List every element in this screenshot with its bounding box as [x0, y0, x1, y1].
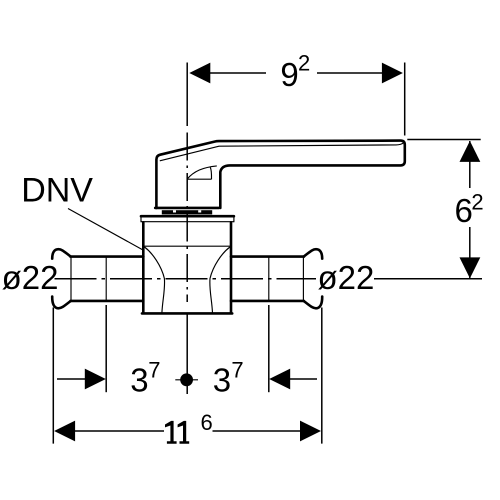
svg-text:2: 2 [471, 189, 483, 214]
dim 9.2 left arrow [189, 63, 210, 84]
DNV leader line [68, 209, 143, 251]
center dot [180, 373, 193, 386]
dim 6.2 up arrow [460, 141, 481, 162]
svg-text:ø22: ø22 [318, 259, 375, 296]
thumb fold hook [210, 167, 211, 179]
dim 6.2 down arrow [460, 257, 481, 278]
svg-text:6: 6 [455, 192, 473, 229]
svg-text:DNV: DNV [21, 171, 93, 209]
left pipe top line [71, 255, 144, 258]
dim 9.2 right arrow [382, 63, 403, 84]
dim 3.7 left arrow [85, 369, 106, 390]
svg-text:9: 9 [280, 56, 298, 93]
thumb rest arc [187, 166, 217, 179]
bonnet flange lower line [141, 221, 233, 223]
right bell top [304, 249, 322, 258]
left insert depth mark [105, 257, 107, 301]
dim 6.2 top extension line [407, 139, 480, 141]
dim 11.6 text [165, 421, 177, 444]
handle grip bottom edge [155, 207, 219, 210]
left pipe bottom line [71, 300, 144, 303]
dim 3.7 right extension line [268, 305, 270, 392]
vertical centerline solid top (9.2 left extension) [186, 63, 188, 127]
vertical centerline solid through dot [186, 313, 188, 394]
svg-text:7: 7 [231, 357, 243, 382]
right pipe end line [302, 257, 304, 301]
dim 9.2 right extension line [404, 63, 406, 136]
body shoulder line [143, 245, 231, 247]
valve body outline [142, 222, 232, 313]
dim 11.6 left extension line [52, 308, 54, 444]
body funnel curve left [145, 247, 165, 313]
right pipe bottom line [231, 300, 304, 303]
dim 11.6 left arrow [54, 421, 75, 442]
dim 11.6 right extension line [321, 308, 323, 444]
body funnel curve right [210, 247, 230, 313]
horizontal centerline right segment [374, 278, 482, 280]
svg-text:7: 7 [148, 357, 160, 382]
right pipe top line [231, 255, 304, 258]
dim 6.2 line lower [469, 227, 471, 278]
left bell top [52, 249, 70, 258]
vertical centerline dash-dot [186, 133, 188, 303]
handle grip and arm outline [156, 141, 404, 208]
dim 11.6 right arrow [300, 421, 321, 442]
right bell bottom [304, 297, 322, 309]
horizontal centerline left segment [55, 278, 317, 280]
dim 3.7 right arrow [269, 369, 290, 390]
right insert depth mark [268, 257, 270, 301]
dim 3.7 left extension line [105, 305, 107, 392]
svg-text:3: 3 [213, 362, 231, 399]
svg-text:ø22: ø22 [2, 259, 59, 296]
dim 3.7 right line [288, 378, 317, 380]
center dot horizontal tick [175, 379, 198, 381]
dim 9.2 line right part [317, 72, 384, 74]
bonnet flange sides [141, 215, 234, 222]
dim 6.2 line upper [469, 141, 471, 188]
stem notch right [198, 210, 201, 212]
dim 11.6 line right part [213, 430, 301, 432]
svg-text:6: 6 [201, 410, 213, 435]
bonnet flange top edge [141, 215, 234, 218]
dim 9.2 line left part [210, 72, 267, 74]
left bell bottom [52, 297, 70, 309]
handle inner contour line [160, 143, 403, 161]
left pipe end line [70, 257, 72, 301]
thumb rest horizontal line [187, 178, 212, 180]
svg-text:3: 3 [130, 362, 148, 399]
stem band [162, 210, 212, 214]
dim 3.7 left line [57, 378, 86, 380]
stem notch left [173, 210, 176, 212]
dim 11.6 line left part [75, 430, 165, 432]
svg-text:2: 2 [298, 51, 310, 76]
